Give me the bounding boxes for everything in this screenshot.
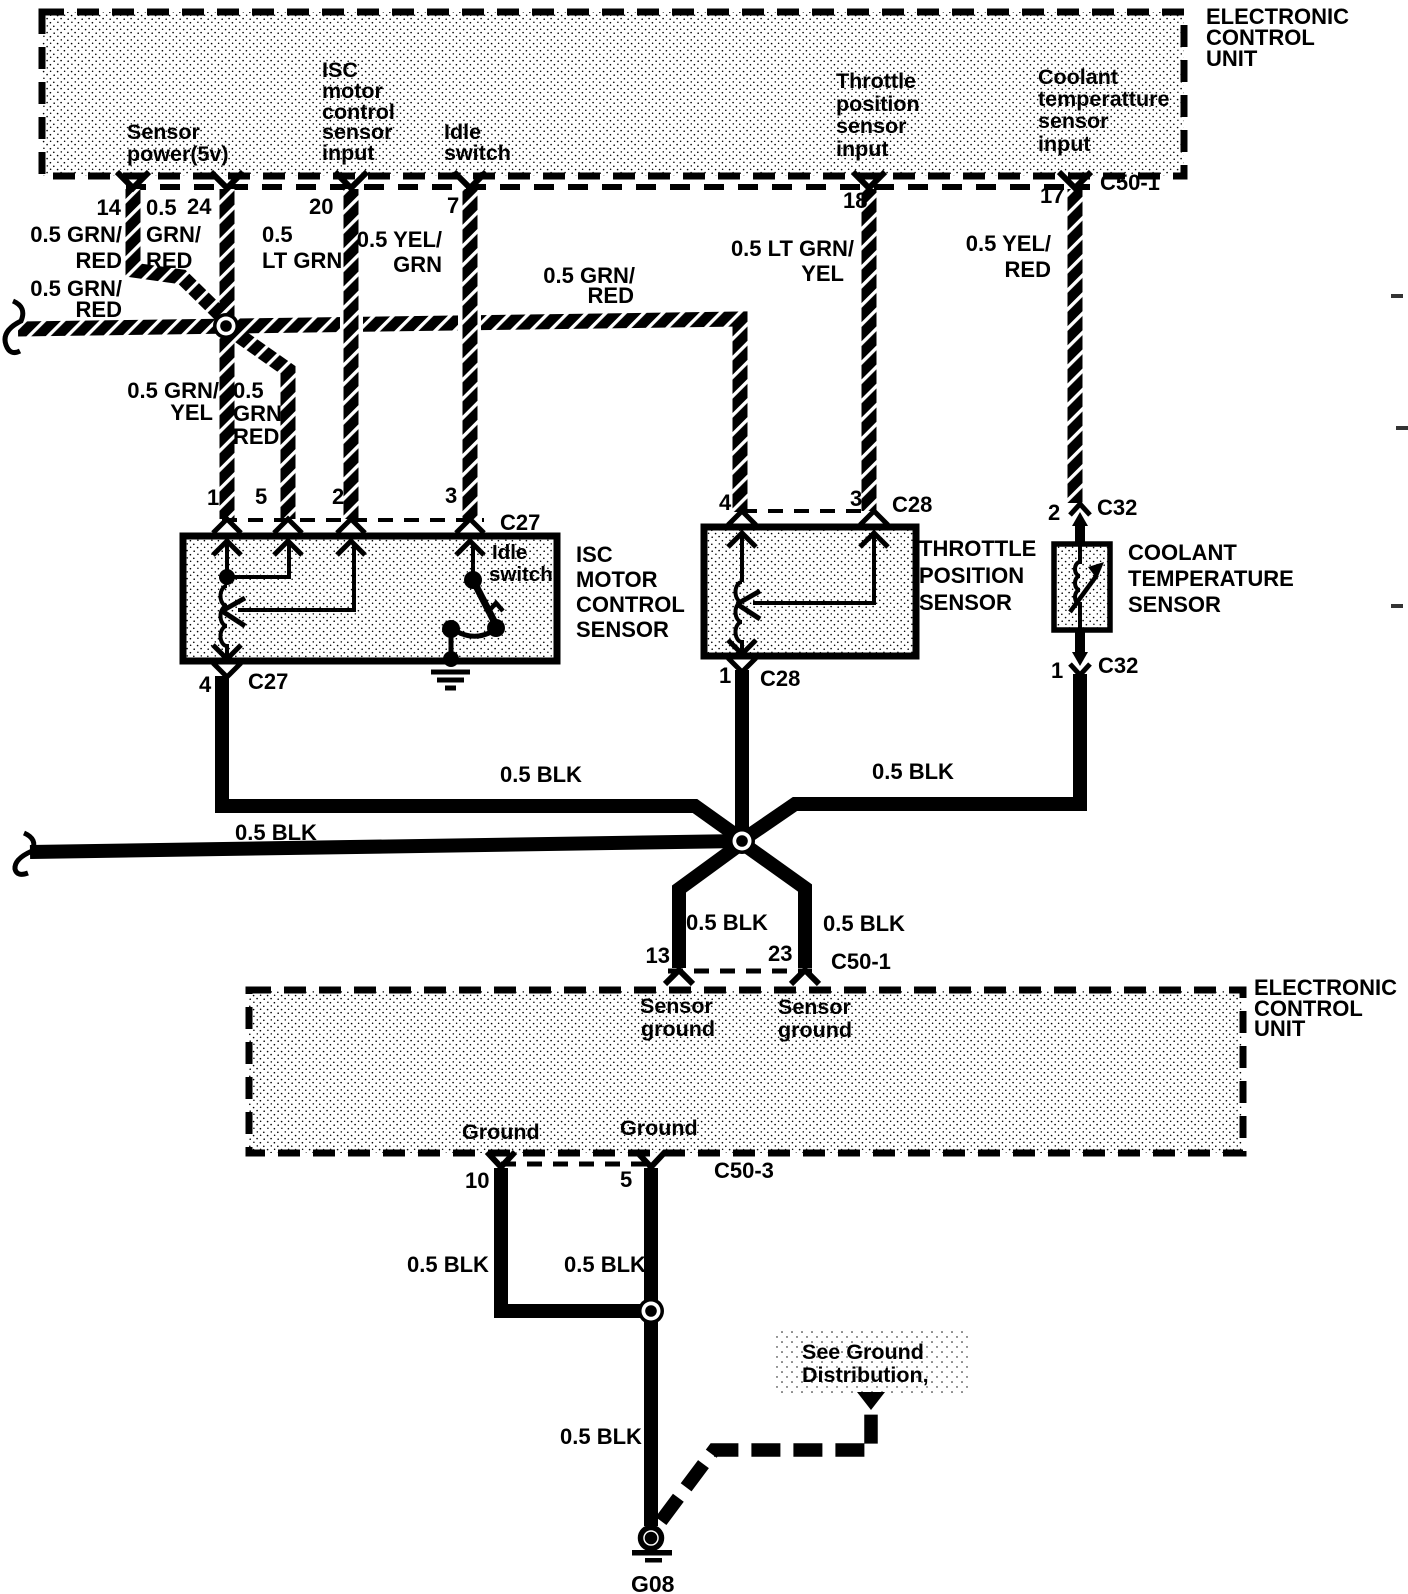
svg-text:2: 2 [1048, 500, 1060, 525]
svg-text:switch: switch [444, 141, 511, 165]
idle switch S1 inside C27 [442, 543, 505, 667]
svg-text:0.5 BLK: 0.5 BLK [560, 1424, 642, 1449]
C27 wiper arrow from pin 2 [222, 543, 354, 626]
wire 0.5 GRN/RED from splice to C27 pin 5 [228, 328, 288, 519]
svg-text:MOTOR: MOTOR [576, 567, 658, 592]
svg-text:3: 3 [850, 486, 862, 511]
label COOLANT TEMPERATURE SENSOR [1128, 540, 1294, 617]
wire label 0.5 BLK (to ground) [560, 1424, 642, 1449]
label ELECTRONIC CONTROL UNIT (bottom) [1254, 975, 1397, 1041]
label G08 [631, 1571, 675, 1594]
wire 0.5 YEL/GRN from ECU pin 7 to C27 pin 3 (crosses horizontal wire) [458, 189, 481, 519]
svg-text:20: 20 [309, 194, 333, 219]
svg-text:RED: RED [146, 248, 192, 273]
svg-text:SENSOR: SENSOR [919, 590, 1012, 615]
ECU pin 5 terminal [637, 1152, 665, 1167]
label Sensor ground (pin 23) [778, 995, 852, 1042]
wire label 0.5 YEL/GRN [357, 227, 442, 277]
svg-text:ground: ground [641, 1017, 715, 1041]
pin number 2 (C32) [1048, 500, 1060, 525]
electronic control unit U1 (bottom box) [249, 990, 1243, 1153]
svg-text:Sensor: Sensor [640, 994, 714, 1018]
svg-text:0.5: 0.5 [233, 378, 264, 403]
svg-text:0.5 GRN/: 0.5 GRN/ [30, 222, 122, 247]
svg-text:0.5 BLK: 0.5 BLK [235, 820, 317, 845]
svg-text:THROTTLE: THROTTLE [919, 536, 1036, 561]
pin number 20 [309, 194, 333, 219]
svg-text:RED: RED [76, 248, 122, 273]
wire label 0.5 BLK (pin 10 drop) [407, 1252, 489, 1277]
ECU pin 13 terminal [665, 970, 693, 984]
svg-text:Ground: Ground [462, 1120, 540, 1144]
wire label 0.5 GRN/RED (C27 pin 5) [233, 378, 282, 449]
svg-text:5: 5 [620, 1167, 632, 1192]
label See Ground Distribution, [802, 1340, 929, 1387]
pin number 1 (C28 bottom) [719, 663, 731, 688]
label C50-1 (top) [1100, 170, 1160, 195]
splice node C (ground junction) [638, 1298, 664, 1324]
wire label 0.5 BLK (pin 13 drop) [686, 910, 768, 935]
svg-text:0.5 BLK: 0.5 BLK [500, 762, 582, 787]
svg-text:C27: C27 [248, 669, 288, 694]
label THROTTLE POSITION SENSOR [919, 536, 1036, 615]
wire 0.5 BLK from C27 pin 4 to splice node B [222, 676, 744, 841]
svg-text:See Ground: See Ground [802, 1340, 924, 1364]
svg-text:C32: C32 [1097, 495, 1137, 520]
pin number 23 [768, 941, 792, 966]
label C28 (top) [892, 492, 932, 517]
svg-text:17: 17 [1040, 183, 1064, 208]
C27 internal junction dot [219, 569, 235, 585]
svg-text:LT GRN: LT GRN [262, 248, 342, 273]
svg-text:UNIT: UNIT [1206, 46, 1258, 71]
ISC motor control sensor box [183, 536, 557, 661]
svg-text:ground: ground [778, 1018, 852, 1042]
connector C50-1 dashed line (bottom, pins 13/23) [668, 969, 812, 974]
connector C50-3 dashed line (pins 10/5) [501, 1162, 652, 1167]
label C50-3 [714, 1158, 774, 1183]
wire 0.5 BLK from ECU pin 10 to splice node C [501, 1168, 648, 1311]
label C50-1 (bottom) [831, 949, 891, 974]
connector C27 dashed line [222, 518, 484, 522]
svg-text:sensor: sensor [836, 114, 907, 138]
svg-text:switch: switch [489, 563, 553, 586]
svg-text:SENSOR: SENSOR [576, 617, 669, 642]
pin number 5 (C27) [255, 484, 267, 509]
continuation squiggle (top left cut mark) [5, 301, 23, 353]
label C27 (bottom) [248, 669, 288, 694]
wire 0.5 LT GRN from ECU pin 20 to C27 pin 2 (crosses horizontal wire) [340, 189, 363, 519]
ISC motor coil L1 [220, 586, 227, 658]
svg-text:7: 7 [447, 193, 459, 218]
svg-text:Idle: Idle [492, 541, 527, 564]
svg-text:0.5 BLK: 0.5 BLK [823, 911, 905, 936]
wire 0.5 GRN/RED horizontal from left edge to corner above C28 pin 4 [18, 319, 740, 512]
C27 pin 2 terminal [337, 519, 365, 555]
C27 internal wire dot to pin 5 [227, 543, 289, 577]
throttle position sensor coil R1 [736, 582, 743, 652]
svg-text:COOLANT: COOLANT [1128, 540, 1237, 565]
svg-text:0.5: 0.5 [146, 195, 177, 220]
wire label 0.5 GRN/RED (middle horizontal) [543, 263, 635, 308]
C27 pin 4 terminal (bottom) [213, 645, 241, 677]
svg-text:13: 13 [646, 943, 670, 968]
svg-text:TEMPERATURE: TEMPERATURE [1128, 566, 1294, 591]
pin number 7 [447, 193, 459, 218]
pin number 2 (C27) [332, 484, 344, 509]
svg-text:C32: C32 [1098, 653, 1138, 678]
C28 pin 3 terminal [860, 511, 888, 547]
wire label 0.5 LT GRN/YEL [731, 236, 854, 286]
page margin tick marks (scan artifacts) [1391, 294, 1408, 608]
pin number 1 (C32 bottom) [1051, 658, 1063, 683]
svg-text:Distribution,: Distribution, [802, 1363, 929, 1387]
wire label 0.5 GRN/YEL (C27 pin 1) [127, 378, 219, 425]
chassis ground under idle switch [431, 672, 470, 688]
C32 pin 1 terminal (bottom) [1070, 628, 1090, 675]
svg-text:UNIT: UNIT [1254, 1016, 1306, 1041]
ECU pin 18 terminal [853, 172, 885, 188]
electronic control unit U1 (top box) [42, 12, 1184, 176]
svg-text:1: 1 [207, 485, 219, 510]
ECU pin 10 terminal [487, 1152, 515, 1167]
svg-text:POSITION: POSITION [919, 563, 1024, 588]
label Sensor ground (pin 13) [640, 994, 715, 1041]
svg-text:GRN: GRN [233, 401, 282, 426]
wire 0.5 BLK long run from left edge to splice node B [30, 841, 742, 852]
C28 wiper arrow from pin 3 [737, 535, 874, 619]
thermistor RT1 inside C32 [1070, 546, 1104, 628]
C28 pin 4 terminal [728, 511, 756, 547]
label Idle switch (ECU) [444, 120, 511, 165]
pin number 13 [646, 943, 670, 968]
svg-text:0.5 LT GRN/: 0.5 LT GRN/ [731, 236, 854, 261]
svg-text:C50-3: C50-3 [714, 1158, 774, 1183]
label C28 (bottom) [760, 666, 800, 691]
svg-text:14: 14 [97, 195, 122, 220]
svg-text:C27: C27 [500, 510, 540, 535]
svg-text:0.5 BLK: 0.5 BLK [564, 1252, 646, 1277]
svg-text:5: 5 [255, 484, 267, 509]
wire label 0.5 BLK (C32 run) [872, 759, 954, 784]
splice node A (GRN/RED junction) [213, 313, 239, 339]
svg-text:SENSOR: SENSOR [1128, 592, 1221, 617]
svg-text:4: 4 [199, 672, 212, 697]
C27 pin 5 terminal [274, 519, 302, 555]
label Sensor power(5v) [127, 120, 229, 166]
label C32 (top) [1097, 495, 1137, 520]
pin number 4 (C28) [719, 490, 732, 515]
svg-text:input: input [322, 141, 375, 165]
C27 pin 3 terminal [456, 519, 484, 555]
arrow into See Ground Distribution box [857, 1392, 885, 1410]
svg-text:YEL: YEL [801, 261, 844, 286]
svg-text:C28: C28 [760, 666, 800, 691]
pin number 14 [97, 195, 122, 220]
label Throttle position sensor input [836, 69, 920, 161]
svg-text:4: 4 [719, 490, 732, 515]
connector C50-1 dashed line (top) [126, 184, 1090, 190]
label ISC MOTOR CONTROL SENSOR [576, 542, 685, 642]
ECU pin 17 terminal [1059, 172, 1091, 188]
svg-text:3: 3 [445, 483, 457, 508]
svg-text:RED: RED [76, 297, 122, 322]
pin number 24 and wire label 0.5 GRN/RED [146, 194, 212, 273]
svg-text:C50-1: C50-1 [1100, 170, 1160, 195]
svg-text:1: 1 [1051, 658, 1063, 683]
C27 internal wire pin1 to junction dot [225, 543, 229, 570]
pin number 3 (C27) [445, 483, 457, 508]
wire 0.5 GRN/RED from ECU pin 14 to splice [133, 189, 230, 324]
coolant temperature sensor box [1054, 544, 1110, 630]
svg-text:YEL: YEL [170, 400, 213, 425]
label C27 (top) [500, 510, 540, 535]
label ISC motor control sensor input [322, 58, 395, 165]
svg-text:power(5v): power(5v) [127, 142, 229, 166]
svg-text:0.5 BLK: 0.5 BLK [686, 910, 768, 935]
wire label 0.5 GRN/RED (pin 14) [30, 222, 122, 273]
label ELECTRONIC CONTROL UNIT (top) [1206, 4, 1349, 71]
svg-text:temperatture: temperatture [1038, 87, 1169, 111]
dashed wire to See Ground Distribution reference [661, 1408, 871, 1521]
wire label 0.5 GRN/RED (left edge) [30, 276, 122, 322]
wire label 0.5 YEL/RED [966, 231, 1051, 282]
wire label 0.5 BLK (pin 5 drop) [564, 1252, 646, 1277]
pin number 10 [465, 1168, 489, 1193]
svg-text:position: position [836, 92, 920, 116]
splice node B (sensor ground junction) [729, 828, 755, 854]
svg-text:C50-1: C50-1 [831, 949, 891, 974]
ECU pin 7 terminal [454, 172, 486, 188]
wire label 0.5 BLK (C27 pin 4 run) [500, 762, 582, 787]
wire 0.5 GRN/RED / GRN/YEL from ECU pin 24 through splice to C27 pin 1 [220, 189, 235, 519]
wire 0.5 BLK from C28 pin 1 down to splice node B [735, 670, 749, 845]
wire 0.5 BLK from splice node B to ECU pin 13 [679, 843, 742, 968]
C27 pin 1 terminal [213, 519, 241, 555]
svg-text:0.5 YEL/: 0.5 YEL/ [966, 231, 1051, 256]
svg-text:0.5 BLK: 0.5 BLK [407, 1252, 489, 1277]
svg-text:C28: C28 [892, 492, 932, 517]
label Idle switch (inside C27) [489, 541, 553, 586]
svg-text:Sensor: Sensor [778, 995, 852, 1019]
throttle position sensor box [704, 527, 916, 656]
pin number 5 (C50-3) [620, 1167, 632, 1192]
svg-text:23: 23 [768, 941, 792, 966]
ECU pin 20 terminal [335, 172, 367, 188]
ECU pin 24 terminal [211, 172, 243, 188]
continuation squiggle (left cut mark of 0.5 BLK wire) [15, 833, 34, 874]
C28 internal wire pin 4 to coil [740, 535, 744, 582]
label Ground (pin 10) [462, 1120, 540, 1144]
ground G08 symbol [632, 1528, 672, 1563]
label Coolant temperatture sensor input [1038, 65, 1169, 156]
C32 pin 2 terminal [1070, 504, 1090, 546]
wire label 0.5 LT GRN [262, 222, 342, 273]
svg-text:ISC: ISC [576, 542, 613, 567]
svg-text:10: 10 [465, 1168, 489, 1193]
svg-text:input: input [836, 137, 889, 161]
svg-text:sensor: sensor [1038, 109, 1109, 133]
svg-text:Sensor: Sensor [127, 120, 201, 144]
ECU pin 23 terminal [791, 970, 819, 984]
wire label 0.5 BLK (long left run) [235, 820, 317, 845]
svg-text:2: 2 [332, 484, 344, 509]
svg-text:0.5 YEL/: 0.5 YEL/ [357, 227, 442, 252]
pin number 1 (C27) [207, 485, 219, 510]
svg-text:G08: G08 [631, 1571, 675, 1594]
wire 0.5 LT GRN/YEL from ECU pin 18 to C28 pin 3 [862, 189, 877, 511]
svg-text:18: 18 [843, 188, 867, 213]
pin number 4 (C27 bottom) [199, 672, 212, 697]
svg-text:Coolant: Coolant [1038, 65, 1118, 89]
connector C28 dashed line [742, 509, 874, 513]
svg-text:CONTROL: CONTROL [576, 592, 685, 617]
svg-text:GRN: GRN [393, 252, 442, 277]
svg-text:1: 1 [719, 663, 731, 688]
svg-text:0.5 BLK: 0.5 BLK [872, 759, 954, 784]
svg-text:24: 24 [187, 194, 212, 219]
svg-text:Throttle: Throttle [836, 69, 916, 93]
wire 0.5 BLK from ECU pin 5 through splice node C to ground G08 [644, 1168, 658, 1526]
svg-text:0.5: 0.5 [262, 222, 293, 247]
svg-text:RED: RED [588, 283, 634, 308]
pin number 17 [1040, 183, 1064, 208]
svg-text:RED: RED [1005, 257, 1051, 282]
wire 0.5 BLK from splice node B to ECU pin 23 [742, 843, 805, 968]
svg-text:GRN/: GRN/ [146, 222, 201, 247]
svg-text:RED: RED [233, 424, 279, 449]
svg-text:Ground: Ground [620, 1116, 698, 1140]
wire label 0.5 BLK (pin 23 drop) [823, 911, 905, 936]
label Ground (pin 5) [620, 1116, 698, 1140]
pin number 3 (C28) [850, 486, 862, 511]
pin number 18 [843, 188, 867, 213]
wire 0.5 YEL/RED from ECU pin 17 to C32 pin 2 [1068, 189, 1083, 503]
svg-text:input: input [1038, 132, 1091, 156]
ECU pin 14 terminal [117, 172, 149, 188]
wire 0.5 BLK from C32 pin 1 to splice node B [741, 674, 1080, 841]
see ground distribution reference box [775, 1330, 968, 1394]
label C32 (bottom) [1098, 653, 1138, 678]
C28 pin 1 terminal (bottom) [728, 640, 756, 672]
